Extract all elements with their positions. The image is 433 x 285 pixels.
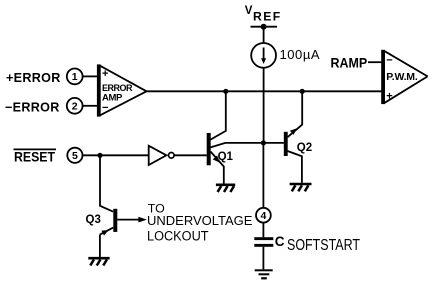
svg-text:RAMP: RAMP: [331, 55, 368, 71]
wire pin1 to error amp: [83, 75, 98, 77]
wire pin5 node to Q3 collector: [100, 155, 113, 211]
svg-text:RESET: RESET: [14, 149, 55, 165]
svg-text:100µA: 100µA: [280, 47, 321, 62]
junction dot rail / Q1 collector: [223, 89, 228, 94]
wire error amp output rail: [147, 90, 382, 92]
wire RAMP to PWM: [368, 61, 382, 63]
wire pin4 to capacitor: [262, 223, 264, 238]
label RAMP: [331, 55, 368, 71]
junction dot softstart node / Q1 collector2 / Q2 base: [261, 140, 266, 145]
svg-text:1: 1: [72, 71, 78, 83]
wire VREF to current source: [263, 27, 265, 43]
transistor Q2: [284, 91, 312, 183]
junction VREF terminal dot: [261, 24, 267, 30]
comparator U3 PWM: [381, 50, 427, 104]
wire Q2 base: [263, 142, 284, 144]
svg-text:+: +: [102, 68, 108, 80]
VREF terminal bar: [251, 26, 278, 28]
wire capacitor to ground: [262, 247, 264, 270]
ground Q2: [290, 184, 312, 191]
transistor Q1: [207, 91, 264, 184]
pin 2 circle: [67, 98, 83, 114]
svg-text:C: C: [275, 234, 285, 249]
transistor Q3: [86, 209, 147, 257]
label +ERROR: [6, 71, 61, 85]
svg-text:ERROR: ERROR: [102, 83, 133, 93]
label -ERROR: [5, 101, 60, 115]
svg-text:+: +: [386, 90, 392, 102]
wire pin2 to error amp: [83, 105, 98, 107]
ground Q3: [88, 258, 109, 265]
junction dot rail / Q2 emitter: [300, 89, 305, 94]
label C: [275, 234, 285, 249]
svg-text:2: 2: [72, 101, 78, 113]
svg-text:4: 4: [260, 210, 266, 222]
svg-text:UNDERVOLTAGE: UNDERVOLTAGE: [147, 213, 253, 228]
svg-text:LOCKOUT: LOCKOUT: [147, 228, 209, 244]
wire inverter to Q1 base: [174, 154, 207, 156]
svg-text:Q3: Q3: [86, 214, 101, 226]
node VREF label: [245, 5, 282, 23]
svg-text:Q1: Q1: [218, 151, 234, 163]
op-amp U1 error amp: [97, 64, 147, 116]
pin 5 circle: [67, 148, 82, 163]
label TO UNDERVOLTAGE LOCKOUT: [147, 201, 253, 243]
wire current source to softstart node: [263, 68, 265, 143]
svg-text:5: 5: [72, 150, 78, 162]
svg-text:−: −: [386, 54, 392, 66]
label SOFTSTART: [287, 237, 360, 255]
svg-text:P.W.M.: P.W.M.: [386, 71, 418, 83]
svg-text:Q2: Q2: [297, 142, 312, 154]
svg-text:AMP: AMP: [102, 93, 123, 104]
inverter U2: [149, 146, 174, 165]
ground Q1: [216, 185, 235, 192]
junction dot pin5 node: [97, 153, 102, 158]
value label 100uA: [280, 47, 321, 62]
ground earth softstart: [255, 269, 273, 279]
wire pin5 to inverter: [83, 154, 149, 156]
capacitor C softstart: [254, 237, 273, 247]
svg-text:−ERROR: −ERROR: [5, 101, 60, 115]
svg-text:−: −: [102, 102, 108, 114]
pin 4 circle: [256, 208, 271, 223]
svg-text:V: V: [245, 5, 253, 17]
svg-text:REF: REF: [253, 10, 282, 24]
label RESET with overline: [14, 149, 57, 165]
current source I1 100uA: [251, 43, 276, 68]
svg-text:+ERROR: +ERROR: [6, 71, 61, 85]
wire softstart node to pin4: [262, 143, 264, 208]
pin 1 circle: [67, 69, 83, 85]
svg-text:SOFTSTART: SOFTSTART: [287, 237, 360, 255]
